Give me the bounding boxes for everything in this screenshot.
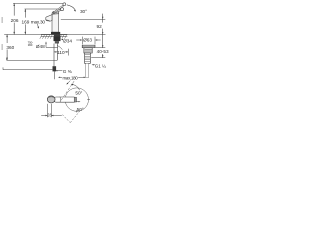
svg-text:G ⅜: G ⅜: [63, 69, 72, 74]
svg-text:50°: 50°: [75, 91, 82, 96]
dimension 360 line: [6, 35, 8, 44]
plan view circle: [65, 88, 88, 111]
svg-text:50°: 50°: [77, 107, 84, 112]
text labels: [6, 9, 109, 118]
svg-text:max.30: max.30: [31, 19, 46, 24]
deck hatching: [40, 35, 67, 39]
plan circle bottom tick: [76, 110, 78, 112]
dia48 leader: up arrow and underline: [45, 43, 47, 47]
datum line (deck level extension, full width): [4, 34, 105, 36]
110 left arrow: [54, 51, 57, 53]
plan small arrow at lever end: [76, 101, 79, 103]
extension line (169 level): [25, 8, 61, 10]
svg-text:Ø34: Ø34: [63, 39, 72, 44]
svg-text:169: 169: [21, 19, 29, 24]
plan dashed ray upper-left: [61, 80, 74, 100]
G1 1/4 leader arrow: [93, 64, 95, 66]
waste collar/nut: [84, 48, 92, 53]
dia63 extension lines: [81, 37, 83, 45]
28 dim line left with arrow: [41, 115, 46, 117]
max.180 left arrow: [59, 76, 62, 78]
extension line top (206 level): [13, 2, 63, 4]
svg-text:40-53: 40-53: [97, 49, 109, 54]
waste set flange: [82, 45, 95, 77]
lever closed (wedge): [53, 9, 61, 14]
110 dimension: [54, 49, 68, 56]
svg-text:92: 92: [96, 24, 102, 29]
mounting shank nut below deck (dark): [54, 37, 61, 42]
aerator: [46, 20, 49, 22]
plan view lever collar line: [60, 97, 61, 103]
110 right extension line: [67, 49, 69, 56]
waste tail tube: [86, 63, 89, 77]
hose end extension line 1: [7, 59, 58, 61]
G 3/8 leader arrow: [57, 70, 62, 72]
28 dimension extension lines: [47, 104, 49, 118]
plan view pivot cap: [74, 97, 76, 102]
plan dashed ray lower (V left branch): [62, 115, 70, 123]
svg-text:28: 28: [47, 113, 52, 118]
110 right arrow: [65, 51, 68, 53]
deck cross-section bottom line: [41, 36, 67, 38]
deck cross-section top line: [41, 33, 67, 35]
dia34 leader arrow: [62, 39, 63, 41]
plan dashed ray lower (V right branch): [70, 110, 81, 123]
30deg arc: [67, 5, 76, 11]
faucet side view: [46, 3, 76, 32]
dia63 dimension arrows: [76, 39, 81, 41]
svg-text:360: 360: [6, 45, 14, 50]
arrowheads left dims: [6, 3, 26, 60]
right dimension stack vertical line: [102, 14, 104, 58]
extension line aerator level (92 top): [61, 18, 106, 20]
plan view lever bar: [54, 97, 77, 102]
plan circle right tick: [87, 99, 90, 101]
svg-text:360: 360: [28, 43, 33, 47]
28 dim line right with arrow: [53, 115, 62, 117]
plan upper arc with arrowhead: [72, 84, 80, 90]
leader arrow below max.180: [68, 81, 71, 84]
hose end extension line 2: [3, 69, 52, 71]
hose coupling (dark): [53, 66, 57, 71]
svg-text:Ø63: Ø63: [83, 37, 92, 42]
fold mark left 1: [1, 17, 3, 23]
lever closed knob: [61, 8, 64, 11]
faucet body column: [52, 12, 59, 32]
shank stub: [55, 41, 59, 43]
supply hose A: [53, 44, 55, 67]
svg-text:206: 206: [11, 18, 19, 23]
lever raised: [53, 5, 63, 13]
dimension 206 line: [13, 3, 15, 15]
max.30 leader arrow: [37, 24, 39, 29]
40-53 extension lines: [96, 47, 106, 49]
faucet head/cartridge: [52, 11, 59, 14]
fold mark left 2: [1, 44, 3, 50]
dimension 169 line: [24, 9, 26, 18]
pull rod below coupling: [53, 71, 55, 79]
svg-text:G1 ¼: G1 ¼: [95, 63, 106, 68]
waste threaded shank: [85, 53, 91, 63]
hose curve detail: [58, 46, 63, 50]
plan view knob (dark): [47, 96, 55, 103]
supply hose B: [56, 44, 58, 61]
shank through deck: [54, 34, 60, 36]
faucet base flange (dark): [51, 32, 60, 35]
thread lines: [85, 49, 92, 61]
30deg arc arrowhead: [74, 10, 76, 12]
svg-text:30°: 30°: [80, 9, 87, 14]
svg-text:110: 110: [57, 50, 65, 55]
lever raised knob: [63, 3, 66, 6]
svg-text:Ø48: Ø48: [36, 44, 45, 49]
svg-text:max.180: max.180: [63, 75, 79, 80]
max.180 right arrow: [78, 76, 84, 78]
spout: [46, 15, 52, 22]
